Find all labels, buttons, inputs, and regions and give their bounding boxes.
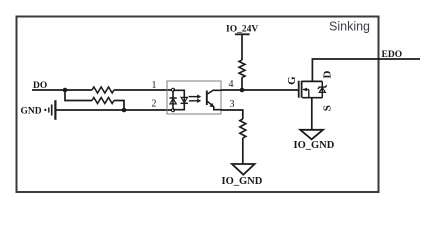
resistor R1 (series, DO to pin 1) [92,87,114,93]
wire MOSFET source to ground [311,98,313,130]
svg-text:IO_GND: IO_GND [294,140,335,151]
junction pin 4 node [240,88,245,93]
ground IO_GND (opto side) [232,164,255,175]
wire DO node down to shunt branch [65,90,92,101]
svg-text:D: D [322,70,334,78]
svg-text:1: 1 [152,80,157,91]
svg-text:3: 3 [230,99,235,110]
svg-text:S: S [321,105,333,111]
diode body diode of Q2 [318,81,327,97]
svg-text:Sinking: Sinking [329,20,370,34]
wire pin 3 to resistor R4 [221,110,243,119]
pin label S [321,105,333,111]
wire resistor R2 down to GND rail [114,101,124,111]
svg-text:G: G [286,76,298,85]
pin label G [286,76,298,85]
wire resistor R4 to ground [242,138,244,164]
optocoupler U1 body [167,81,221,114]
pin label D [322,70,334,78]
diode LED D1 (up, on left branch) [170,98,177,104]
net label IO_GND (MOSFET side) [294,140,335,151]
ground IO_GND (MOSFET source) [300,130,323,140]
svg-text:4: 4 [229,79,234,90]
wire resistor R3 to pin 4 node [241,78,243,91]
wire GND rail to pin 2 [56,109,173,111]
wire resistor R1 to pin 1 [114,89,173,91]
transistor Q1 (phototransistor of U1) [207,90,221,110]
opto input pin circle top [172,88,175,91]
title Sinking [329,20,370,34]
pin number 4 [229,79,234,90]
svg-text:IO_24V: IO_24V [226,25,258,35]
net label IO_GND (opto side) [222,176,263,187]
wire IO_24V to resistor R3 [241,34,243,60]
pin number 3 [230,99,235,110]
light arrows (LED to phototransistor) [189,94,201,103]
resistor R4 (pin 3 to IO_GND) [240,119,246,138]
net label IO_24V [226,25,258,35]
svg-text:GND: GND [21,107,42,117]
net label DO [33,81,47,91]
net label EDO [382,50,403,60]
wire pin 4 to MOSFET gate [221,89,298,91]
transistor Q2 (N-channel MOSFET) [299,81,323,98]
resistor R3 (pull-up from IO_24V to pin 4) [239,60,245,78]
junction GND node [122,108,127,113]
junction DO node [63,88,68,93]
net label GND [21,107,42,117]
power IO_24V bar symbol [235,33,250,35]
diode LED D2 (down, on right branch) [181,97,188,103]
svg-text:EDO: EDO [382,50,403,60]
wire opto LED loop [173,90,184,109]
pin number 1 [152,80,157,91]
opto input pin circle bottom [172,109,175,112]
svg-text:2: 2 [152,99,157,110]
svg-text:IO_GND: IO_GND [222,176,263,187]
wire DO input rail [32,89,92,91]
resistor R2 (shunt across opto input) [92,98,114,104]
ground GND (signal ground symbol) [44,100,55,120]
wire MOSFET drain to EDO [312,59,420,81]
pin number 2 [152,99,157,110]
